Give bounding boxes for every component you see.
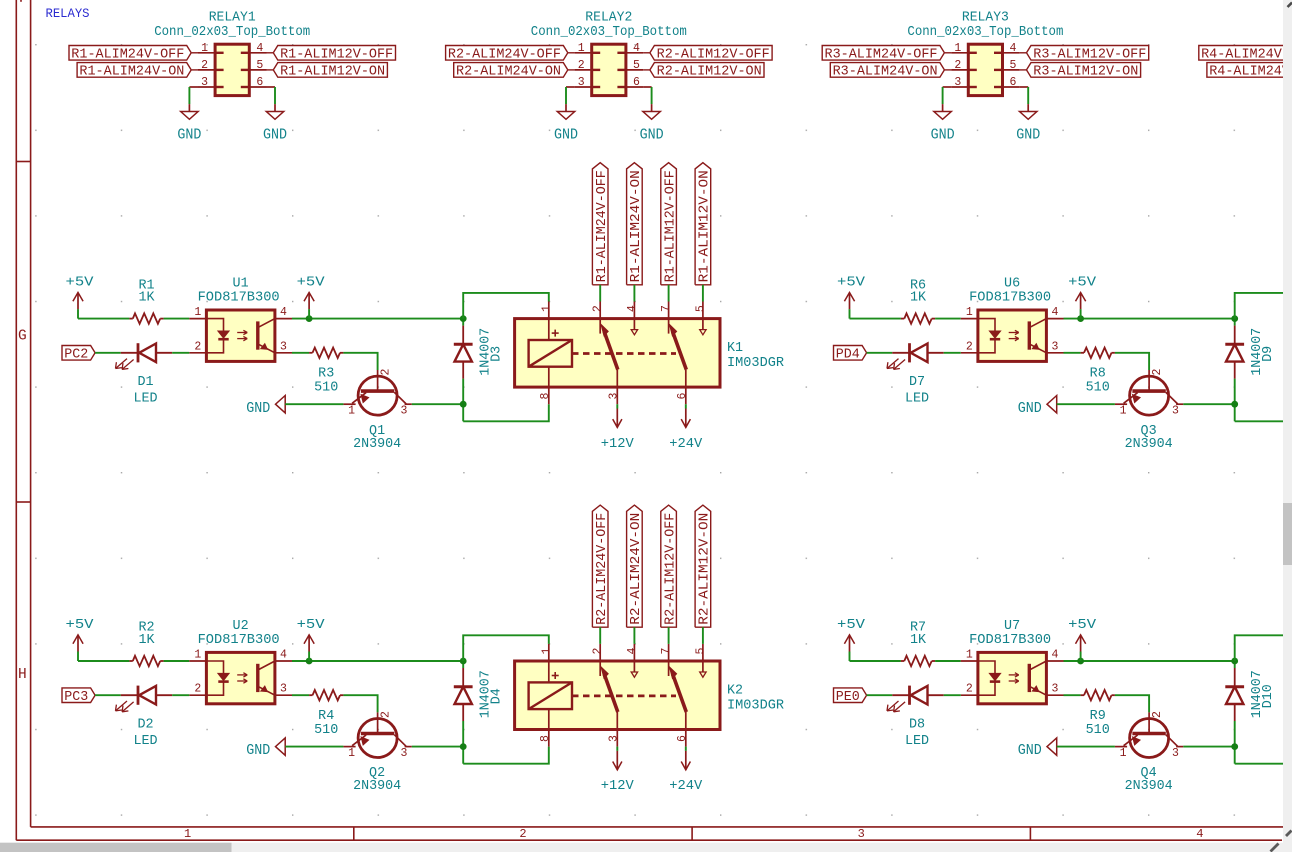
svg-text:R2-ALIM12V-OFF: R2-ALIM12V-OFF: [663, 513, 678, 625]
svg-text:R1-ALIM24V-ON: R1-ALIM24V-ON: [79, 65, 184, 80]
svg-text:K1: K1: [727, 341, 743, 356]
ground: [1016, 104, 1040, 144]
global label R1-ALIM24V-ON: [77, 63, 191, 80]
svg-text:R1-ALIM24V-ON: R1-ALIM24V-ON: [629, 170, 644, 282]
svg-text:5: 5: [256, 59, 263, 72]
svg-text:FOD817B300: FOD817B300: [198, 291, 280, 306]
ground: [931, 104, 955, 144]
svg-text:2: 2: [194, 340, 201, 353]
relay K2 actuator link: [572, 695, 676, 698]
svg-text:+5V: +5V: [1068, 276, 1096, 291]
power +5V: [837, 276, 865, 319]
wire: [685, 404, 687, 408]
optocoupler U2: [189, 619, 292, 704]
scrollbar tracks: [1283, 0, 1292, 852]
wire: [274, 87, 276, 104]
wire: [944, 694, 961, 696]
power +5V: [66, 618, 94, 661]
junction: [306, 658, 313, 665]
svg-text:R3-ALIM24V-OFF: R3-ALIM24V-OFF: [825, 48, 938, 63]
power +5V: [837, 618, 865, 661]
svg-text:6: 6: [1010, 76, 1017, 89]
svg-text:1: 1: [540, 305, 553, 312]
svg-text:GND: GND: [246, 399, 270, 417]
wire: [867, 352, 893, 354]
wire: [1235, 293, 1288, 319]
diode D4: [454, 668, 505, 721]
svg-text:6: 6: [676, 393, 689, 400]
relay K2 pin 1: [548, 644, 550, 683]
svg-text:+24V: +24V: [669, 437, 702, 452]
junction: [1077, 658, 1084, 665]
svg-text:R2-ALIM12V-OFF: R2-ALIM12V-OFF: [657, 48, 770, 63]
power +12V: [601, 409, 634, 452]
svg-text:1: 1: [348, 747, 355, 760]
svg-text:5: 5: [633, 59, 640, 72]
svg-text:1: 1: [540, 647, 553, 654]
wire: [462, 661, 464, 668]
wire: [1020, 86, 1028, 88]
junction: [460, 401, 467, 408]
svg-text:FOD817B300: FOD817B300: [969, 633, 1051, 648]
resistor R8: [1081, 348, 1115, 396]
svg-text:R4-ALIM24V-OFF: R4-ALIM24V-OFF: [1201, 48, 1292, 63]
svg-text:R2-ALIM12V-ON: R2-ALIM12V-ON: [657, 65, 762, 80]
wire: [412, 746, 463, 748]
wire: [1235, 763, 1288, 765]
svg-text:1: 1: [966, 649, 973, 662]
diode D10: [1225, 668, 1276, 721]
svg-text:4: 4: [280, 306, 287, 319]
wire: [867, 694, 893, 696]
svg-text:2N3904: 2N3904: [353, 779, 401, 794]
wire: [1234, 379, 1236, 422]
svg-text:GND: GND: [1016, 126, 1040, 144]
relay K2 switch 2: [669, 644, 707, 747]
relay K1 pin 1: [548, 302, 550, 341]
wire: [188, 87, 190, 104]
wire: [463, 404, 549, 421]
wire: [172, 352, 189, 354]
svg-text:PD4: PD4: [836, 348, 860, 363]
wire: [1234, 319, 1236, 326]
svg-text:+5V: +5V: [297, 618, 325, 633]
ground: [1018, 396, 1057, 417]
svg-text:1K: 1K: [910, 633, 927, 648]
wire: [1064, 660, 1235, 662]
svg-text:3: 3: [1172, 404, 1179, 417]
svg-text:GND: GND: [1018, 741, 1042, 759]
wire: [702, 627, 704, 644]
ground: [246, 738, 285, 759]
svg-text:4: 4: [626, 647, 639, 654]
LED D1: [116, 343, 173, 406]
svg-text:Conn_02x03_Top_Bottom: Conn_02x03_Top_Bottom: [907, 25, 1063, 40]
svg-text:1: 1: [194, 306, 201, 319]
svg-text:3: 3: [954, 76, 961, 89]
resistor R7: [901, 621, 935, 667]
svg-text:R4: R4: [318, 709, 334, 724]
svg-text:1: 1: [966, 306, 973, 319]
svg-text:4: 4: [1051, 306, 1058, 319]
svg-text:D4: D4: [489, 688, 504, 704]
svg-text:D8: D8: [909, 717, 925, 732]
wire: [702, 285, 704, 302]
transistor Q2: [343, 711, 411, 794]
wire: [668, 627, 670, 644]
svg-text:2N3904: 2N3904: [1125, 437, 1173, 452]
svg-text:LED: LED: [905, 734, 929, 749]
svg-text:U7: U7: [1004, 619, 1020, 634]
svg-text:1: 1: [348, 404, 355, 417]
power +5V: [297, 276, 325, 319]
global label R2-ALIM12V-OFF: [650, 46, 772, 63]
svg-text:R3-ALIM12V-ON: R3-ALIM12V-ON: [1033, 65, 1138, 80]
svg-text:4: 4: [1196, 827, 1203, 841]
global label PC2: [62, 346, 95, 363]
optocoupler U6: [961, 277, 1064, 362]
global label R2-ALIM12V-ON: [650, 63, 764, 80]
relay K1 actuator link: [572, 352, 676, 355]
transistor Q1: [343, 369, 411, 452]
wire: [942, 87, 944, 104]
global label R2-ALIM24V-OFF: [592, 505, 610, 627]
svg-text:Conn_02x03_Top_Bottom: Conn_02x03_Top_Bottom: [154, 25, 310, 40]
wire: [1115, 353, 1149, 370]
junction: [1231, 401, 1238, 408]
ground: [554, 104, 578, 144]
svg-text:2: 2: [954, 59, 961, 72]
wire: [343, 353, 377, 370]
global label R2-ALIM24V-ON: [454, 63, 568, 80]
svg-text:4: 4: [256, 42, 263, 55]
relay K2: [515, 644, 784, 747]
wire: [292, 352, 309, 354]
svg-text:2N3904: 2N3904: [1125, 779, 1173, 794]
svg-text:LED: LED: [133, 734, 157, 749]
svg-text:3: 3: [1051, 683, 1058, 696]
svg-text:R1-ALIM12V-ON: R1-ALIM12V-ON: [280, 65, 385, 80]
junction: [1077, 315, 1084, 322]
svg-text:8: 8: [539, 735, 552, 742]
junction: [460, 743, 467, 750]
wire: [189, 86, 198, 88]
global label R2-ALIM12V-OFF: [661, 505, 679, 627]
wire: [343, 695, 377, 712]
svg-text:+5V: +5V: [66, 276, 94, 291]
power +5V: [1068, 276, 1096, 319]
svg-text:3: 3: [607, 735, 620, 742]
connector RELAY2: [531, 10, 687, 95]
svg-text:1: 1: [578, 42, 585, 55]
relay K1 coil: [529, 330, 572, 367]
svg-text:GND: GND: [554, 126, 578, 144]
svg-text:1: 1: [1120, 747, 1127, 760]
svg-text:1: 1: [954, 42, 961, 55]
wire: [462, 721, 464, 764]
optocoupler U1: [189, 277, 292, 362]
resistor R1: [129, 278, 163, 324]
global label R3-ALIM24V-OFF: [822, 46, 944, 63]
junction: [460, 658, 467, 665]
svg-text:8: 8: [539, 393, 552, 400]
scrollbar thumb vertical: [1283, 503, 1292, 565]
svg-text:3: 3: [578, 76, 585, 89]
svg-text:1K: 1K: [138, 633, 155, 648]
svg-text:GND: GND: [640, 126, 664, 144]
svg-text:6: 6: [633, 76, 640, 89]
wire: [463, 747, 549, 764]
svg-text:IM03DGR: IM03DGR: [727, 356, 784, 371]
connector RELAY4 (clipped): [1199, 46, 1292, 80]
svg-text:G: G: [18, 329, 27, 345]
power +12V: [601, 751, 634, 794]
svg-text:+5V: +5V: [1068, 618, 1096, 633]
junction: [1231, 658, 1238, 665]
relay K1 switch 1: [600, 302, 637, 405]
svg-text:FOD817B300: FOD817B300: [198, 633, 280, 648]
wire: [1234, 721, 1236, 764]
junction: [460, 315, 467, 322]
power +5V: [297, 618, 325, 661]
wire: [78, 660, 129, 662]
svg-text:2: 2: [592, 647, 605, 654]
svg-text:2: 2: [592, 305, 605, 312]
wire: [1057, 746, 1115, 748]
svg-text:5: 5: [694, 647, 707, 654]
wire: [599, 285, 601, 302]
svg-text:D10: D10: [1261, 684, 1276, 708]
svg-text:6: 6: [676, 735, 689, 742]
wire: [1064, 694, 1081, 696]
global label R1-ALIM12V-ON: [695, 163, 713, 285]
svg-text:3: 3: [401, 747, 408, 760]
svg-text:U1: U1: [233, 277, 249, 292]
svg-text:2: 2: [519, 827, 526, 841]
svg-text:RELAYS: RELAYS: [46, 6, 90, 21]
wire: [935, 318, 961, 320]
svg-text:2: 2: [966, 683, 973, 696]
svg-text:1K: 1K: [910, 291, 927, 306]
global label PD4: [834, 346, 867, 363]
svg-text:4: 4: [1051, 649, 1058, 662]
LED D2: [116, 686, 173, 749]
wire: [943, 86, 952, 88]
ground: [640, 104, 664, 144]
svg-text:3: 3: [858, 827, 865, 841]
wire: [164, 318, 190, 320]
svg-text:LED: LED: [133, 392, 157, 407]
wire: [1057, 403, 1115, 405]
svg-text:510: 510: [1086, 723, 1110, 738]
global label R2-ALIM24V-ON: [627, 505, 645, 627]
global label R3-ALIM12V-OFF: [1027, 46, 1149, 63]
svg-text:4: 4: [1010, 42, 1017, 55]
wire: [633, 285, 635, 302]
wire: [292, 318, 463, 320]
wire: [616, 747, 618, 751]
svg-text:3: 3: [1172, 747, 1179, 760]
global label R4-ALIM24V-ON: [1207, 63, 1292, 80]
wire: [95, 694, 121, 696]
wire: [1235, 635, 1288, 661]
wire: [292, 660, 463, 662]
LED D7: [887, 343, 944, 406]
wire: [1183, 746, 1234, 748]
relay K2 coil: [529, 672, 572, 709]
resistor R2: [129, 621, 163, 667]
wire: [1064, 318, 1235, 320]
resistor R3: [309, 348, 343, 396]
svg-text:D1: D1: [137, 375, 153, 390]
svg-text:510: 510: [1086, 380, 1110, 395]
svg-text:RELAY1: RELAY1: [209, 10, 256, 25]
svg-text:+24V: +24V: [669, 779, 702, 794]
svg-text:1K: 1K: [138, 291, 155, 306]
transistor Q4: [1115, 711, 1183, 794]
svg-text:4: 4: [626, 305, 639, 312]
wire: [172, 694, 189, 696]
svg-text:GND: GND: [263, 126, 287, 144]
svg-text:4: 4: [633, 42, 640, 55]
svg-text:PC3: PC3: [64, 690, 88, 705]
svg-text:RELAY2: RELAY2: [585, 10, 632, 25]
svg-text:Conn_02x03_Top_Bottom: Conn_02x03_Top_Bottom: [531, 25, 687, 40]
global label R3-ALIM24V-ON: [830, 63, 944, 80]
connector RELAY1: [154, 10, 310, 95]
LED D8: [887, 686, 944, 749]
resistor R4: [309, 690, 343, 738]
svg-text:RELAY3: RELAY3: [962, 10, 1009, 25]
svg-text:D3: D3: [489, 346, 504, 362]
wire: [565, 87, 567, 104]
wire: [267, 86, 276, 88]
svg-text:R3-ALIM12V-OFF: R3-ALIM12V-OFF: [1033, 48, 1146, 63]
svg-text:R1-ALIM12V-OFF: R1-ALIM12V-OFF: [280, 48, 393, 63]
junction: [1231, 743, 1238, 750]
wire: [651, 87, 653, 104]
global label R1-ALIM12V-ON: [273, 63, 387, 80]
svg-text:D7: D7: [909, 375, 925, 390]
junction: [306, 315, 313, 322]
svg-text:+5V: +5V: [66, 618, 94, 633]
svg-text:D2: D2: [137, 717, 153, 732]
ground: [246, 396, 285, 417]
svg-text:D9: D9: [1261, 346, 1276, 362]
svg-text:R2-ALIM24V-ON: R2-ALIM24V-ON: [629, 513, 644, 625]
svg-text:R9: R9: [1090, 709, 1106, 724]
svg-text:510: 510: [314, 380, 338, 395]
wire: [95, 352, 121, 354]
global label PC3: [62, 688, 95, 705]
relay K1 switch 2: [669, 302, 707, 405]
power +5V: [66, 276, 94, 319]
svg-text:1: 1: [1120, 404, 1127, 417]
svg-text:R8: R8: [1090, 366, 1106, 381]
scrollbar thumb horizontal: [0, 843, 232, 852]
global label R2-ALIM12V-ON: [695, 505, 713, 627]
global label R1-ALIM24V-OFF: [69, 46, 191, 63]
svg-text:3: 3: [280, 683, 287, 696]
svg-text:2: 2: [194, 683, 201, 696]
svg-text:U6: U6: [1004, 277, 1020, 292]
wire: [1183, 403, 1234, 405]
svg-text:R1-ALIM24V-OFF: R1-ALIM24V-OFF: [595, 170, 610, 282]
svg-text:3: 3: [201, 76, 208, 89]
relay K1 pin 8: [548, 367, 550, 405]
global label R1-ALIM24V-OFF: [592, 163, 610, 285]
svg-text:R2-ALIM24V-OFF: R2-ALIM24V-OFF: [595, 513, 610, 625]
svg-text:3: 3: [280, 340, 287, 353]
wire: [1027, 87, 1029, 104]
power +24V: [669, 409, 702, 452]
wire: [78, 318, 129, 320]
corner resize grip: [1271, 3, 1292, 852]
wire: [1064, 352, 1081, 354]
relay K1: [515, 302, 784, 405]
svg-text:R1-ALIM12V-OFF: R1-ALIM12V-OFF: [663, 170, 678, 282]
svg-text:LED: LED: [905, 392, 929, 407]
wire: [285, 403, 343, 405]
svg-text:+5V: +5V: [837, 618, 865, 633]
transistor Q3: [1115, 369, 1183, 452]
svg-text:+12V: +12V: [601, 437, 634, 452]
svg-text:GND: GND: [931, 126, 955, 144]
svg-text:K2: K2: [727, 683, 743, 698]
global label R1-ALIM12V-OFF: [661, 163, 679, 285]
wire: [850, 318, 901, 320]
svg-text:2: 2: [1151, 369, 1164, 376]
svg-text:5: 5: [1010, 59, 1017, 72]
relay K2 pin 8: [548, 709, 550, 747]
svg-text:R4-ALIM24V-ON: R4-ALIM24V-ON: [1209, 65, 1292, 80]
svg-text:6: 6: [256, 76, 263, 89]
frame column numbers: [184, 827, 1203, 841]
wire: [1115, 695, 1149, 712]
wire: [463, 635, 549, 661]
svg-text:R3-ALIM24V-ON: R3-ALIM24V-ON: [833, 65, 938, 80]
wire: [616, 404, 618, 408]
svg-text:1: 1: [201, 42, 208, 55]
svg-text:PE0: PE0: [836, 690, 860, 705]
svg-text:7: 7: [660, 305, 673, 312]
wire: [685, 747, 687, 751]
svg-text:2: 2: [201, 59, 208, 72]
svg-text:GND: GND: [246, 741, 270, 759]
svg-text:2: 2: [380, 369, 393, 376]
svg-text:R1-ALIM24V-OFF: R1-ALIM24V-OFF: [71, 48, 184, 63]
junction: [1231, 315, 1238, 322]
diode D3: [454, 326, 505, 379]
power +24V: [669, 751, 702, 794]
ground: [263, 104, 287, 144]
svg-text:R2-ALIM24V-OFF: R2-ALIM24V-OFF: [448, 48, 561, 63]
svg-text:GND: GND: [177, 126, 201, 144]
connector RELAY3: [907, 10, 1063, 95]
svg-text:GND: GND: [1018, 399, 1042, 417]
wire: [1234, 661, 1236, 668]
global label R3-ALIM12V-ON: [1027, 63, 1141, 80]
resistor R9: [1081, 690, 1115, 738]
svg-text:3: 3: [401, 404, 408, 417]
svg-text:H: H: [18, 667, 27, 683]
svg-text:+12V: +12V: [601, 779, 634, 794]
svg-text:R2-ALIM24V-ON: R2-ALIM24V-ON: [456, 65, 561, 80]
ground: [177, 104, 201, 144]
wire: [285, 746, 343, 748]
global label R4-ALIM24V-OFF: [1199, 46, 1292, 63]
wire: [1235, 420, 1288, 422]
